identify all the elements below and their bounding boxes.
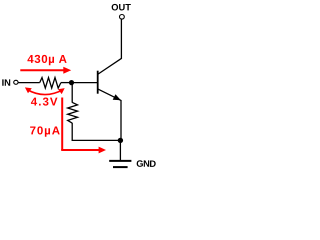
- svg-text:OUT: OUT: [111, 2, 131, 12]
- svg-text:430µ A: 430µ A: [27, 54, 67, 66]
- transistor Q1 emitter: [98, 89, 121, 100]
- svg-text:GND: GND: [136, 159, 156, 169]
- junction node E: [118, 138, 123, 143]
- wire IN to R1: [18, 82, 39, 84]
- current arrow 430uA: [20, 69, 64, 71]
- voltage arc 4.3V: [27, 90, 63, 95]
- wire node B to base: [72, 82, 98, 84]
- current path 70uA vertical: [61, 98, 63, 151]
- wire R2 top lead: [71, 83, 73, 103]
- wire bottom rail: [72, 139, 120, 141]
- resistor R1 (horizontal): [40, 78, 61, 89]
- current path 70uA horizontal: [61, 149, 99, 151]
- svg-text:IN: IN: [2, 78, 12, 88]
- wire R1 to node B: [61, 82, 72, 84]
- transistor Q1 collector: [98, 58, 121, 74]
- svg-text:4.3V: 4.3V: [31, 97, 59, 109]
- wire R2 bottom lead: [71, 123, 73, 141]
- junction node B: [69, 80, 74, 85]
- resistor R2 (vertical): [68, 102, 78, 123]
- svg-text:70µA: 70µA: [30, 125, 61, 137]
- wire collector to OUT: [120, 19, 122, 59]
- wire emitter to node E: [120, 100, 122, 140]
- current arrow 70uA: [99, 147, 106, 154]
- transistor Q1 emitter arrow: [113, 94, 121, 100]
- ground stub wire: [119, 140, 121, 160]
- transistor Q1 base bar: [97, 71, 99, 94]
- terminal IN: [14, 80, 18, 84]
- ground: [109, 160, 131, 162]
- terminal OUT: [120, 14, 125, 19]
